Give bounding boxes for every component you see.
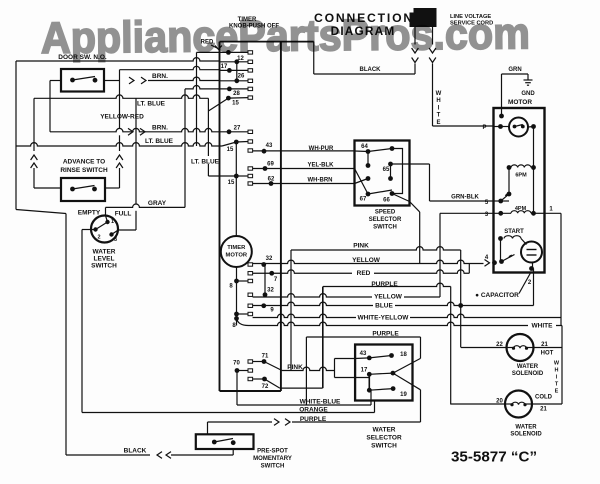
svg-text:DIAGRAM: DIAGRAM xyxy=(331,24,396,38)
svg-text:43: 43 xyxy=(360,351,367,357)
svg-text:64: 64 xyxy=(361,144,368,150)
svg-text:H: H xyxy=(555,368,559,374)
svg-text:GRN: GRN xyxy=(508,67,521,73)
svg-text:WATER: WATER xyxy=(373,427,396,434)
svg-text:E: E xyxy=(555,389,559,395)
svg-text:18: 18 xyxy=(400,352,407,358)
svg-text:66: 66 xyxy=(383,198,390,204)
svg-text:TIMER: TIMER xyxy=(238,17,257,23)
svg-text:71: 71 xyxy=(262,354,269,360)
svg-text:3: 3 xyxy=(114,237,117,243)
svg-text:19: 19 xyxy=(400,392,407,398)
svg-text:CONNECTION: CONNECTION xyxy=(314,11,414,25)
svg-text:69: 69 xyxy=(267,162,274,168)
svg-text:32: 32 xyxy=(266,256,273,262)
svg-text:27: 27 xyxy=(234,126,241,132)
svg-text:LEVEL: LEVEL xyxy=(94,256,115,263)
svg-text:28: 28 xyxy=(233,91,240,97)
svg-text:WH-PUR: WH-PUR xyxy=(309,146,334,152)
svg-text:17: 17 xyxy=(361,368,368,374)
svg-text:LT. BLUE: LT. BLUE xyxy=(137,101,166,108)
svg-text:PRE-SPOT: PRE-SPOT xyxy=(257,449,288,455)
svg-text:WATER: WATER xyxy=(515,425,537,431)
svg-text:SOLENOID: SOLENOID xyxy=(512,371,544,377)
svg-text:8: 8 xyxy=(232,323,236,329)
svg-text:SWITCH: SWITCH xyxy=(91,263,117,270)
svg-text:15: 15 xyxy=(227,147,234,153)
svg-text:MOMENTARY: MOMENTARY xyxy=(253,456,292,462)
svg-text:2: 2 xyxy=(97,235,100,241)
svg-text:22: 22 xyxy=(496,342,503,348)
svg-text:SERVICE CORD: SERVICE CORD xyxy=(450,20,493,26)
svg-text:EMPTY: EMPTY xyxy=(78,210,101,217)
svg-text:SOLENOID: SOLENOID xyxy=(510,432,542,438)
svg-text:4: 4 xyxy=(485,255,489,261)
svg-text:65: 65 xyxy=(383,167,390,173)
svg-text:1: 1 xyxy=(549,207,553,213)
svg-text:T: T xyxy=(437,113,441,119)
svg-text:LINE VOLTAGE: LINE VOLTAGE xyxy=(450,14,491,20)
svg-text:21: 21 xyxy=(541,342,548,348)
svg-text:LT. BLUE: LT. BLUE xyxy=(191,159,220,166)
svg-text:YELLOW: YELLOW xyxy=(374,294,403,301)
svg-text:SELECTOR: SELECTOR xyxy=(369,217,402,223)
svg-text:WATER: WATER xyxy=(93,249,116,256)
svg-text:I: I xyxy=(556,375,558,381)
svg-text:KNOB-PUSH OFF: KNOB-PUSH OFF xyxy=(229,24,279,30)
svg-text:FULL: FULL xyxy=(115,211,132,218)
svg-text:YELLOW: YELLOW xyxy=(352,257,381,264)
svg-text:I: I xyxy=(438,105,440,111)
svg-text:H: H xyxy=(436,98,440,104)
svg-text:SWITCH: SWITCH xyxy=(371,443,397,450)
svg-text:DOOR SW. N.O.: DOOR SW. N.O. xyxy=(58,54,107,61)
svg-text:72: 72 xyxy=(262,384,269,390)
svg-text:1: 1 xyxy=(111,219,114,225)
svg-text:GRAY: GRAY xyxy=(148,200,167,207)
svg-text:15: 15 xyxy=(232,101,239,107)
svg-text:PURPLE: PURPLE xyxy=(372,330,399,337)
svg-text:LT. BLUE: LT. BLUE xyxy=(145,138,174,145)
svg-text:PURPLE: PURPLE xyxy=(300,416,327,423)
svg-text:START: START xyxy=(504,229,524,235)
svg-text:SELECTOR: SELECTOR xyxy=(366,435,402,442)
svg-text:PURPLE: PURPLE xyxy=(371,281,398,288)
svg-text:15: 15 xyxy=(228,180,235,186)
svg-text:ADVANCE TO: ADVANCE TO xyxy=(63,159,105,166)
svg-text:WH-BRN: WH-BRN xyxy=(308,178,333,184)
svg-text:8: 8 xyxy=(229,284,233,290)
svg-text:RED: RED xyxy=(357,270,371,277)
svg-text:T: T xyxy=(555,382,559,388)
svg-text:SWITCH: SWITCH xyxy=(373,225,397,231)
svg-text:PINK: PINK xyxy=(287,364,303,371)
svg-text:WATER: WATER xyxy=(517,364,539,370)
svg-text:WHITE: WHITE xyxy=(532,323,554,330)
svg-text:BRN.: BRN. xyxy=(152,73,168,80)
svg-text:BLACK: BLACK xyxy=(360,67,382,73)
svg-text:GRN-BLK: GRN-BLK xyxy=(451,195,479,201)
svg-text:6PM: 6PM xyxy=(515,173,527,179)
svg-text:YEL-BLK: YEL-BLK xyxy=(308,163,335,169)
svg-text:35-5877 “C”: 35-5877 “C” xyxy=(451,449,537,466)
svg-text:GND: GND xyxy=(521,91,535,97)
svg-text:TIMER: TIMER xyxy=(227,245,246,251)
svg-text:7: 7 xyxy=(274,277,278,283)
svg-text:PINK: PINK xyxy=(353,243,369,250)
svg-text:70: 70 xyxy=(233,361,240,367)
svg-text:● CAPACITOR: ● CAPACITOR xyxy=(475,292,519,299)
svg-text:WHITE-BLUE: WHITE-BLUE xyxy=(300,399,341,406)
svg-text:62: 62 xyxy=(268,177,275,183)
svg-text:BRN.: BRN. xyxy=(152,125,168,132)
svg-text:17: 17 xyxy=(221,64,228,70)
svg-text:RINSE SWITCH: RINSE SWITCH xyxy=(60,167,108,174)
svg-text:32: 32 xyxy=(267,288,274,294)
svg-text:COLD: COLD xyxy=(535,395,553,401)
svg-text:W: W xyxy=(436,91,442,97)
svg-text:67: 67 xyxy=(360,197,367,203)
svg-text:P: P xyxy=(482,125,486,131)
svg-text:W: W xyxy=(554,361,560,367)
svg-text:E: E xyxy=(436,120,440,126)
svg-text:26: 26 xyxy=(238,74,245,80)
svg-text:9: 9 xyxy=(270,308,274,314)
svg-text:SWITCH: SWITCH xyxy=(261,464,285,470)
svg-text:BLUE: BLUE xyxy=(375,302,393,309)
svg-text:ORANGE: ORANGE xyxy=(299,406,328,413)
svg-text:2: 2 xyxy=(528,280,532,286)
svg-text:YELLOW-RED: YELLOW-RED xyxy=(100,114,144,121)
svg-text:21: 21 xyxy=(540,407,547,413)
svg-text:43: 43 xyxy=(266,143,273,149)
svg-text:MOTOR: MOTOR xyxy=(508,99,532,106)
svg-text:SPEED: SPEED xyxy=(375,210,396,216)
svg-text:20: 20 xyxy=(496,399,503,405)
svg-text:WHITE-YELLOW: WHITE-YELLOW xyxy=(358,314,410,321)
svg-text:BLACK: BLACK xyxy=(124,448,147,455)
svg-text:RED: RED xyxy=(201,40,214,46)
svg-text:HOT: HOT xyxy=(541,351,554,357)
svg-text:MOTOR: MOTOR xyxy=(226,253,248,259)
